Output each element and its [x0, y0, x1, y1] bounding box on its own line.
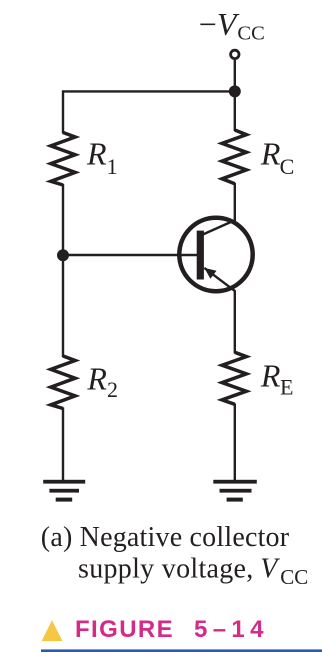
svg-text:R: R: [260, 136, 281, 172]
base bar: [197, 231, 204, 280]
svg-text:−V: −V: [199, 6, 240, 42]
svg-text:E: E: [280, 374, 293, 399]
ground (left): [43, 480, 85, 502]
emitter lead diagonal: [204, 268, 235, 291]
figure marker triangle: [42, 620, 63, 641]
svg-text:CC: CC: [237, 22, 264, 44]
svg-text:supply voltage,: supply voltage,: [78, 554, 254, 585]
wire R2 to ground: [62, 408, 64, 482]
wire terminal to junction: [234, 60, 236, 92]
wire RC to collector: [234, 183, 236, 221]
wire junction to RC: [234, 91, 236, 131]
svg-text:CC: CC: [280, 565, 308, 589]
svg-text:FIGURE: FIGURE: [75, 616, 174, 643]
collector lead diagonal: [203, 220, 236, 235]
resistor RC: [222, 130, 246, 184]
wire RE to ground: [234, 404, 236, 482]
wire emitter to RE: [234, 291, 236, 354]
resistor R2: [51, 356, 75, 409]
ground (right): [213, 480, 256, 502]
svg-text:R: R: [86, 136, 107, 172]
svg-text:1: 1: [107, 154, 118, 179]
resistor R1: [51, 133, 75, 186]
svg-text:V: V: [260, 554, 280, 585]
svg-text:C: C: [280, 154, 295, 179]
transistor Q1 (PNP): [179, 218, 252, 291]
terminal -VCC open circle: [231, 50, 239, 58]
supply label -VCC: [199, 6, 265, 45]
svg-text:R: R: [86, 360, 107, 396]
svg-text:5–14: 5–14: [194, 616, 269, 643]
svg-text:(a) Negative collector: (a) Negative collector: [41, 522, 290, 553]
node base divider junction dot: [57, 249, 69, 261]
transistor body circle: [179, 218, 252, 291]
resistor RE: [222, 352, 246, 404]
wire top horizontal: [63, 90, 235, 92]
wire R1 to base node: [62, 184, 64, 256]
caption line 2: [78, 554, 308, 589]
figure rule: [41, 649, 322, 652]
wire left vertical down to R1: [62, 90, 64, 133]
svg-text:2: 2: [107, 377, 118, 402]
junction node dot (top): [229, 85, 241, 97]
svg-text:R: R: [260, 357, 281, 393]
wire base horizontal: [63, 254, 198, 256]
wire node down to R2: [62, 255, 64, 357]
emitter arrowhead (PNP, points to base): [204, 268, 216, 279]
